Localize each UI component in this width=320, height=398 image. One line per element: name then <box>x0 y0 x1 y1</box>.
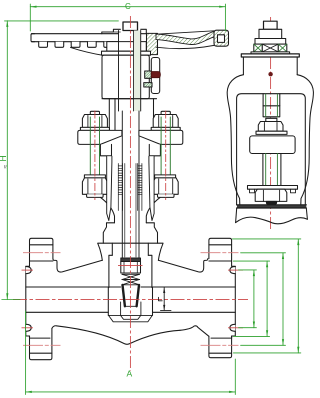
side gland X row left cell <box>254 44 262 52</box>
side top nut <box>258 122 283 132</box>
svg-text:≈: ≈ <box>3 165 10 169</box>
body neck flank right <box>158 243 163 260</box>
red centerlines <box>13 16 271 371</box>
side view vertical centerline <box>270 17 272 230</box>
handwheel rim section <box>214 30 229 46</box>
right stud tip <box>161 111 170 114</box>
dimension H top connector <box>5 20 119 22</box>
right bottom bolt hole centerline <box>201 344 239 346</box>
right flange RF bump bottom <box>230 324 235 331</box>
body neck flank left <box>98 243 103 260</box>
dimension C extension right <box>224 4 226 31</box>
body bottom V right <box>180 326 209 336</box>
dimension A extension left <box>25 311 27 395</box>
handwheel spoke tab 4 <box>88 42 97 48</box>
handwheel top line right of stem <box>141 33 147 35</box>
main vertical centerline <box>129 16 131 371</box>
dimension H arrows <box>6 21 8 300</box>
left stud top nut <box>82 115 107 128</box>
side gland X row right cell <box>278 44 287 52</box>
handwheel hub collar <box>102 29 147 33</box>
yoke rib wedge right <box>149 156 154 220</box>
stem thread ladder left <box>118 164 122 211</box>
right stud washer <box>151 127 180 130</box>
right top bolt hole centerline <box>201 252 239 254</box>
disc wedge right <box>137 285 139 306</box>
dim V1 vertical <box>253 270 255 328</box>
pipe horizontal centerline <box>13 299 248 301</box>
pipe top line right <box>141 286 235 288</box>
right pocket <box>158 259 207 272</box>
svg-text:H: H <box>0 155 8 161</box>
left flange face upper <box>26 266 30 338</box>
handwheel spoke tab 2 <box>55 42 64 48</box>
housing bottom edge <box>102 98 157 100</box>
yoke column left <box>114 99 116 131</box>
side stud shaft <box>263 154 281 186</box>
side bushing block <box>255 39 286 45</box>
handwheel arm silhouette curve <box>71 47 105 55</box>
stem collar (dark band) <box>121 258 141 262</box>
side stem nut block <box>259 29 282 38</box>
side pin dot (maroon) <box>268 72 272 76</box>
right stud centerline <box>165 111 167 201</box>
dim V3 extension top <box>241 252 286 254</box>
right stud bottom nut <box>153 178 178 194</box>
handwheel arm sectioned (hatched) <box>156 31 214 44</box>
side body outer silhouette right <box>297 75 313 205</box>
side base sides <box>236 208 308 223</box>
side washer under nut <box>256 131 287 134</box>
side stem slot <box>263 94 280 117</box>
left flange bottom bolt block <box>30 329 52 360</box>
right stud top nut <box>153 115 178 128</box>
seat block <box>108 288 152 316</box>
left flange RF bump bottom <box>26 324 31 331</box>
handwheel spoke tab 1 <box>39 42 48 48</box>
bonnet flange left <box>78 130 122 144</box>
left top bolt hole centerline <box>23 252 61 254</box>
side pipe break wave <box>236 217 308 224</box>
disc wedge left <box>123 285 125 306</box>
body bottom V left <box>52 326 180 345</box>
pipe bottom line left <box>26 311 109 313</box>
stem top <box>123 22 138 31</box>
handwheel spoke tab 5 <box>104 42 113 48</box>
side stud dark tip <box>266 201 276 204</box>
side yoke window <box>237 94 306 205</box>
left stud shaft <box>90 117 99 178</box>
left stud bottom washer <box>84 175 105 178</box>
coupling pin centerline <box>118 265 143 267</box>
left RF bump tick top <box>22 269 34 271</box>
dim V2 extension top <box>233 260 269 262</box>
internal bore dimension arrow <box>159 288 172 311</box>
stem tube walls <box>121 111 123 258</box>
handwheel rim left end <box>31 34 35 42</box>
handwheel hub section hatched <box>147 33 158 54</box>
handwheel bottom line <box>32 41 119 43</box>
handwheel arm bottom outline <box>156 45 214 48</box>
handwheel hub body <box>107 42 147 52</box>
yoke bushing housing top plate <box>102 51 151 55</box>
gland step left <box>103 223 114 243</box>
left pocket <box>53 259 102 272</box>
right flange top bolt block <box>209 238 232 266</box>
side gland plate <box>251 52 290 54</box>
left stud washer <box>80 127 109 130</box>
handwheel rim groove <box>218 35 225 43</box>
left flange RF bump top <box>26 267 31 274</box>
svg-text:C: C <box>125 2 131 11</box>
dim V2 vertical <box>266 261 268 336</box>
handwheel top line <box>32 33 119 35</box>
pipe bottom line right <box>153 311 236 313</box>
right RF bump tick top <box>228 269 243 271</box>
side base top edge <box>237 205 306 208</box>
side nut washer top <box>266 118 277 121</box>
dim V1 extension top <box>239 269 257 271</box>
dim V4 extension top <box>232 238 300 240</box>
dimension C extension left <box>29 4 31 31</box>
yoke column right <box>153 99 155 131</box>
grease fitting hatched <box>145 71 152 78</box>
dim V4 vertical <box>297 239 299 353</box>
yoke leg curve left <box>101 197 115 222</box>
yoke rib wedge left <box>107 156 112 220</box>
left stud tip <box>90 111 99 114</box>
dimension C arrows <box>30 6 225 8</box>
right stud shaft <box>161 117 170 178</box>
side gland X row middle cell <box>262 44 278 52</box>
grease fitting plug (maroon) <box>151 72 160 78</box>
dimension H bottom connector <box>2 299 20 301</box>
dim V3 vertical <box>282 253 284 345</box>
right stud bottom cap <box>158 194 175 197</box>
disc spring stack <box>122 274 140 285</box>
dim V3 extension bottom <box>241 344 286 346</box>
gland step right <box>146 223 157 243</box>
left RF bump tick bottom <box>22 327 34 329</box>
dimension A arrows <box>26 391 236 393</box>
left flange top bolt block <box>30 238 53 266</box>
side bottom nut <box>255 189 287 201</box>
yoke bushing housing <box>102 55 149 98</box>
fitting lower green block <box>144 83 152 87</box>
stem thread ladder right <box>138 164 142 211</box>
housing right bracket <box>151 58 159 94</box>
dim V1 extension bottom <box>239 327 257 329</box>
side bonnet top plate <box>241 54 299 57</box>
yoke leg curve right <box>146 197 160 222</box>
pipe top line left <box>26 286 121 288</box>
left stud centerline <box>94 111 96 201</box>
body top joint line <box>98 242 163 244</box>
handwheel arm top outline <box>156 31 214 34</box>
svg-text:A: A <box>127 369 133 379</box>
bottom boss <box>108 315 152 321</box>
right flange face upper <box>232 266 236 338</box>
dimension A extension right <box>234 359 236 395</box>
bonnet flange right <box>139 130 183 144</box>
dimension C line <box>30 6 225 8</box>
left stud bottom cap <box>87 194 104 197</box>
stem inner lines <box>124 164 126 258</box>
right RF bump tick bottom <box>228 327 243 329</box>
stuffing box walls <box>111 243 113 255</box>
side stem top <box>264 21 278 29</box>
side lower washer plate <box>248 186 298 190</box>
stem coupling block <box>121 262 141 274</box>
thread ladder rungs <box>118 166 142 195</box>
left stud bottom nut <box>82 178 107 194</box>
side stud upper green lines <box>266 94 278 117</box>
dim V4 extension bottom <box>233 352 300 354</box>
handwheel spoke tab 3 <box>71 42 80 48</box>
right flange bottom bolt block <box>209 336 232 358</box>
stuffing box step <box>109 255 112 287</box>
left bottom bolt hole centerline <box>23 344 61 346</box>
side bonnet flange block <box>250 136 295 154</box>
stem sleeve band <box>134 31 141 112</box>
side body outer silhouette left <box>227 75 243 205</box>
dimension A line <box>26 391 236 393</box>
right flange RF bump top <box>230 267 235 274</box>
side bonnet block <box>243 57 297 75</box>
dimension H vertical <box>6 21 8 300</box>
right stud bottom washer <box>155 175 176 178</box>
dim V2 extension bottom <box>233 335 269 337</box>
